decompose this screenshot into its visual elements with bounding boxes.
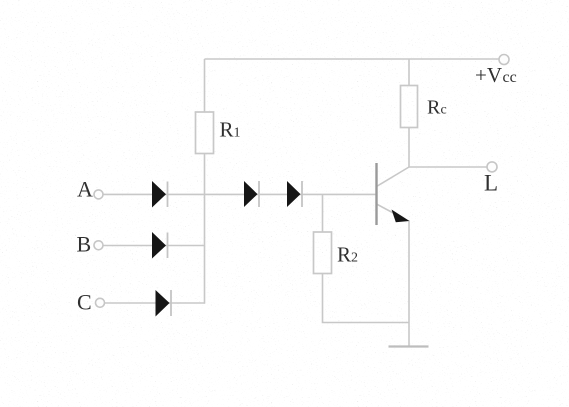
svg-text:R: R <box>337 243 351 267</box>
svg-text:cc: cc <box>503 69 517 86</box>
svg-text:R: R <box>427 97 441 119</box>
svg-text:c: c <box>441 103 447 118</box>
svg-text:2: 2 <box>351 251 358 266</box>
svg-text:1: 1 <box>234 126 241 141</box>
svg-text:A: A <box>77 177 93 202</box>
svg-text:R: R <box>220 118 234 142</box>
svg-text:+V: +V <box>475 63 502 87</box>
svg-text:L: L <box>484 171 498 196</box>
svg-text:C: C <box>77 290 92 315</box>
svg-text:B: B <box>77 232 92 257</box>
